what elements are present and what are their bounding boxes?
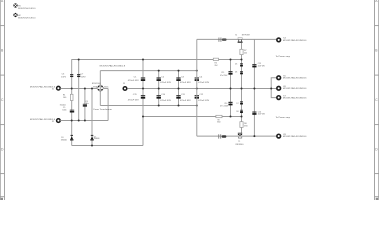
svg-text:C3: C3 [181, 76, 184, 78]
wire C6 branch [71, 60, 73, 146]
svg-text:10uF 63V: 10uF 63V [258, 114, 266, 116]
wire diode chain [241, 60, 243, 134]
svg-text:1nF2: 1nF2 [61, 76, 66, 78]
svg-text:MOUNT-PAD-ROUND3.6: MOUNT-PAD-ROUND3.6 [30, 118, 55, 121]
junction mid rail / diode chain [241, 88, 243, 90]
wire minus rail from bridge [100, 105, 197, 107]
svg-text:B1: B1 [93, 86, 97, 88]
svg-text:470uF 63V: 470uF 63V [128, 99, 140, 101]
wire S1 to R7 [241, 43, 243, 50]
svg-text:2k2: 2k2 [244, 53, 247, 55]
resistor R7 [240, 49, 243, 54]
wire C15 chain [230, 60, 232, 117]
svg-text:To Power amp: To Power amp [276, 116, 291, 119]
wire X2 run [60, 120, 108, 122]
svg-text:47n 250V: 47n 250V [220, 75, 228, 77]
capacitor C10 (bottom) [157, 95, 161, 99]
junction X1 wire / D2 branch top [91, 88, 93, 90]
wire C13 drop [253, 39, 255, 136]
junction mid rail / C4 [196, 88, 198, 90]
capacitor C8 X-cap [83, 104, 87, 107]
svg-text:C9: C9 [133, 94, 137, 96]
junction X2 wire / X-cap bottom [84, 120, 86, 122]
junction sense / riser [142, 116, 144, 118]
svg-text:C12: C12 [199, 94, 203, 96]
junction mid rail / C2 [158, 88, 160, 90]
pad X5 [277, 76, 281, 80]
wire bridge minus down [99, 92, 101, 106]
svg-text:MOUNT-PAD-ROUND3.6: MOUNT-PAD-ROUND3.6 [30, 85, 55, 88]
svg-text:MOUNT-HOLE3.0: MOUNT-HOLE3.0 [18, 8, 36, 10]
junction mid rail / C3 [178, 88, 180, 90]
wire positive out run [197, 38, 276, 40]
svg-text:D7: D7 [236, 103, 238, 105]
junction minus rail / C11 [178, 105, 180, 107]
svg-text:MOUNT-PAD-ROUND3.6: MOUNT-PAD-ROUND3.6 [283, 77, 307, 80]
frame right tick 5 [375, 196, 379, 198]
junction aux rail / C1 column [142, 59, 144, 61]
junction minus rail / C10 [158, 105, 160, 107]
svg-text:10n: 10n [86, 103, 89, 105]
svg-text:R6: R6 [244, 123, 247, 125]
wire negative out run [197, 135, 276, 137]
svg-text:470uF 63V: 470uF 63V [198, 82, 210, 84]
inductor L1 [219, 38, 227, 42]
wire mid rail 0V [128, 88, 277, 90]
pad X3 transformer [123, 87, 127, 91]
capacitor C14 [252, 112, 256, 115]
wire return riser [142, 60, 144, 146]
svg-text:D8: D8 [236, 111, 238, 113]
svg-text:390: 390 [244, 126, 247, 128]
junction plus rail / C3 [178, 70, 180, 72]
capacitor C6 [70, 74, 73, 77]
diode D8 [240, 110, 243, 113]
svg-text:470uF 63V: 470uF 63V [128, 80, 140, 82]
wire plus rail from bridge [100, 70, 197, 72]
svg-text:D6: D6 [235, 71, 237, 73]
frame right tick 1 [375, 25, 379, 27]
frame right tick 4 [375, 173, 379, 175]
capacitor C15 [228, 71, 232, 75]
svg-text:D5: D5 [235, 64, 237, 66]
svg-text:SETPOINT: SETPOINT [242, 35, 251, 37]
junction sense / C16 [230, 116, 232, 118]
svg-text:C1: C1 [134, 76, 137, 78]
wire X-cap branch [84, 89, 86, 121]
svg-text:1N4006: 1N4006 [94, 138, 100, 140]
junction minus rail / riser [196, 105, 198, 107]
frame left tick 4 [0, 173, 5, 175]
svg-text:47n 250V: 47n 250V [220, 105, 229, 107]
resistor R1 snubber [70, 94, 73, 100]
pad X8 [277, 134, 281, 138]
svg-text:C15: C15 [221, 72, 224, 74]
svg-text:From Transformer: From Transformer [94, 108, 113, 111]
svg-text:470uF 63V: 470uF 63V [180, 82, 192, 84]
inductor L2 [218, 134, 226, 138]
resistor R6 [240, 122, 243, 128]
svg-text:1nF2: 1nF2 [81, 76, 86, 78]
resistor R8 [216, 115, 222, 117]
wire aux rail top [71, 59, 241, 61]
svg-text:X2: X2 [52, 121, 54, 123]
wire sense line [143, 116, 242, 118]
wire C7 branch [78, 60, 80, 121]
capacitor C9 (bottom) [141, 95, 145, 99]
wire C3 column [178, 71, 180, 106]
junction aux rail / C7 top [78, 59, 80, 61]
svg-text:C5: C5 [63, 107, 65, 109]
svg-text:To Power amp: To Power amp [276, 55, 291, 58]
wire X1 to bridge AC1 [60, 88, 96, 90]
diode D6 [240, 71, 243, 74]
frame left tick 2 [0, 74, 5, 76]
diode D5 [240, 63, 243, 66]
bridge rectifier B1 [97, 85, 104, 92]
svg-text:IRF9540: IRF9540 [236, 144, 244, 146]
frame bottom-left corner mark [1, 198, 3, 200]
capacitor C5 snubber [70, 110, 74, 113]
svg-text:470uF 63V: 470uF 63V [160, 82, 172, 84]
schematic content group [13, 3, 306, 146]
svg-text:B250C1000: B250C1000 [92, 83, 101, 85]
junction X1 wire / C6 branch [71, 88, 73, 90]
pad X4 [277, 38, 281, 42]
svg-text:MOUNT-PAD-ROUND3.6: MOUNT-PAD-ROUND3.6 [283, 87, 307, 90]
svg-text:MOUNT-PAD-ROUND2.8: MOUNT-PAD-ROUND2.8 [100, 65, 126, 68]
capacitor C4 (top) [195, 77, 199, 81]
capacitor C11 (bottom) [176, 95, 180, 99]
svg-text:MOUNT-PAD-ROUND3.6: MOUNT-PAD-ROUND3.6 [283, 135, 307, 138]
junction aux rail / C15 [230, 59, 232, 61]
wire R7 to aux rail [241, 55, 243, 60]
junction negative run / C14 drop [253, 135, 255, 137]
junction plus rail / C2 [158, 70, 160, 72]
frame right inner line [374, 0, 376, 200]
wire bridge AC2 stub [104, 88, 108, 90]
svg-text:MOUNT-PAD-ROUND3.6: MOUNT-PAD-ROUND3.6 [283, 96, 307, 99]
frame left tick 5 [0, 196, 5, 198]
junction mid rail / bracket [270, 88, 272, 90]
svg-text:T1: T1 [238, 141, 240, 143]
pad X6 [277, 86, 281, 90]
junction aux rail / D5 [241, 59, 243, 61]
capacitor C13 [252, 64, 256, 67]
pad X2 [57, 119, 61, 123]
frame right tick 3 [375, 124, 379, 126]
svg-text:C4: C4 [199, 76, 202, 78]
frame left outer edge [0, 0, 1, 200]
junction return rail / D2 [91, 145, 93, 147]
junction mid rail / C13 drop [253, 88, 255, 90]
svg-text:MOUNT-PAD-ROUND3.6: MOUNT-PAD-ROUND3.6 [283, 39, 307, 42]
mounting hole H2 [13, 13, 17, 17]
junction mid rail / C1 [142, 88, 144, 90]
junction plus rail / C4 [196, 70, 198, 72]
svg-text:MOUNT-HOLE3.0: MOUNT-HOLE3.0 [18, 17, 36, 19]
svg-text:1N4006: 1N4006 [61, 140, 67, 142]
frame bottom-right corner mark [376, 198, 378, 200]
wire output left drop [196, 39, 198, 136]
pad X7 [277, 96, 281, 100]
svg-text:C11: C11 [181, 94, 185, 96]
capacitor C7 [77, 74, 80, 77]
frame left tick 1 [0, 25, 5, 27]
svg-text:X1: X1 [52, 88, 54, 90]
0V bracket [271, 78, 276, 98]
diode D2 [90, 135, 94, 141]
capacitor C2 (top) [157, 77, 161, 81]
mounting hole H1 [13, 3, 17, 7]
svg-text:100n: 100n [62, 110, 66, 112]
svg-text:10uF 63V: 10uF 63V [258, 66, 266, 68]
capacitor C3 (top) [176, 77, 180, 81]
svg-text:100: 100 [63, 97, 66, 99]
svg-text:360: 360 [217, 122, 220, 124]
wire bottom return rail [72, 145, 143, 147]
transistor T1 [238, 133, 242, 138]
junction X2 wire / snubber bottom [71, 120, 73, 122]
svg-text:470uF 63V: 470uF 63V [198, 100, 210, 102]
wire bridge plus up [99, 71, 101, 85]
frame right outer edge [378, 0, 379, 200]
frame right tick 2 [375, 74, 379, 76]
junction X2 wire / C7 bottom [78, 120, 80, 122]
svg-text:470uF 63V: 470uF 63V [180, 100, 192, 102]
junction sense / R6 [241, 116, 243, 118]
capacitor C16 [228, 102, 232, 106]
capacitor C1 (top) [141, 77, 145, 81]
diode D7 [240, 101, 243, 104]
svg-text:C10: C10 [161, 94, 165, 96]
svg-text:S1: S1 [235, 35, 237, 37]
svg-text:X3: X3 [123, 83, 125, 85]
svg-text:C13: C13 [258, 63, 261, 65]
capacitor C12 (bottom) [195, 95, 199, 99]
frame left inner line [4, 0, 6, 200]
svg-text:470uF 63V: 470uF 63V [160, 100, 172, 102]
svg-text:C2: C2 [161, 76, 164, 78]
junction mid rail / C15 chain [230, 88, 232, 90]
resistor R5 [213, 58, 218, 60]
wire D2 branch [91, 89, 93, 146]
frame left tick 3 [0, 124, 5, 126]
svg-text:2k2: 2k2 [215, 65, 218, 67]
pad X1 [57, 86, 61, 90]
diode D1 [70, 135, 74, 141]
junction X1 wire / X-cap top [84, 88, 86, 90]
wire AC2 drop [107, 89, 109, 121]
wire C2 column [158, 71, 160, 106]
jumper S1 [238, 38, 243, 43]
